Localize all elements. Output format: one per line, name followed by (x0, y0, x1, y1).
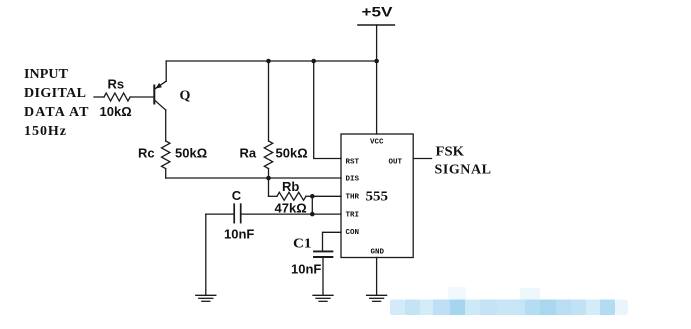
svg-text:50kΩ: 50kΩ (175, 146, 207, 161)
capacitor C (206, 204, 341, 222)
wire GND drop (376, 258, 378, 296)
svg-text:Rb: Rb (282, 179, 299, 194)
wire OUT stub (413, 158, 431, 160)
wire C1 to ground (322, 258, 324, 295)
svg-text:DATA AT: DATA AT (24, 105, 89, 120)
svg-text:FSK: FSK (436, 145, 465, 160)
svg-text:CON: CON (346, 229, 360, 237)
svg-text:555: 555 (366, 190, 389, 205)
svg-text:10kΩ: 10kΩ (100, 104, 132, 119)
ground below C1 (313, 295, 333, 301)
wire Rs to base (130, 96, 153, 98)
ground below C (196, 295, 216, 301)
svg-text:+5V: +5V (362, 4, 394, 20)
svg-text:Rc: Rc (138, 146, 155, 161)
wire RST (314, 61, 341, 159)
svg-text:10nF: 10nF (224, 226, 254, 241)
svg-text:THR: THR (346, 193, 360, 201)
wire DIS (166, 177, 341, 179)
wire THR (312, 195, 341, 197)
node rail-Ra (266, 59, 271, 64)
svg-text:VCC: VCC (370, 139, 384, 147)
svg-text:SIGNAL: SIGNAL (435, 163, 492, 178)
resistor Rs (104, 93, 130, 101)
wire CON stub (323, 232, 342, 250)
svg-text:OUT: OUT (389, 158, 403, 166)
node TRI junction (310, 212, 315, 217)
node rail-VCC (374, 59, 379, 64)
svg-text:47kΩ: 47kΩ (275, 201, 307, 216)
svg-text:GND: GND (371, 248, 385, 256)
node rail-RST (311, 59, 316, 64)
wire VCC drop (376, 25, 378, 134)
wire top rail (166, 60, 376, 62)
resistor Rc (162, 141, 170, 169)
svg-text:50kΩ: 50kΩ (276, 146, 308, 161)
svg-text:INPUT: INPUT (24, 67, 69, 82)
wire Rc bottom (165, 169, 167, 179)
wire Rb junction drop (311, 196, 313, 214)
svg-text:C: C (232, 188, 242, 203)
power +5V (358, 4, 394, 26)
svg-text:TRI: TRI (346, 211, 360, 219)
svg-text:C1: C1 (293, 237, 312, 252)
svg-text:150Hz: 150Hz (24, 124, 66, 139)
svg-text:Q: Q (180, 89, 191, 104)
svg-text:Ra: Ra (240, 146, 257, 161)
wire C to ground (205, 214, 207, 295)
svg-text:DIGITAL: DIGITAL (24, 86, 86, 101)
svg-text:RST: RST (346, 158, 360, 166)
watermark blue bar (390, 287, 628, 315)
svg-text:Rs: Rs (108, 77, 125, 92)
resistor Rb (269, 178, 313, 200)
node Rb-THR (310, 194, 315, 199)
transistor Q (154, 61, 166, 141)
capacitor C1 (314, 251, 332, 257)
op-amp U1 555 timer box (341, 134, 413, 258)
resistor Ra (264, 61, 272, 178)
ground below 555 (367, 295, 387, 301)
node Ra-DIS (266, 176, 271, 181)
svg-text:DIS: DIS (346, 175, 360, 183)
svg-text:10nF: 10nF (291, 262, 321, 277)
label INPUT DIGITAL DATA AT 150Hz (24, 67, 89, 139)
wire input stub to Rs (94, 96, 104, 98)
label FSK SIGNAL (435, 145, 492, 178)
